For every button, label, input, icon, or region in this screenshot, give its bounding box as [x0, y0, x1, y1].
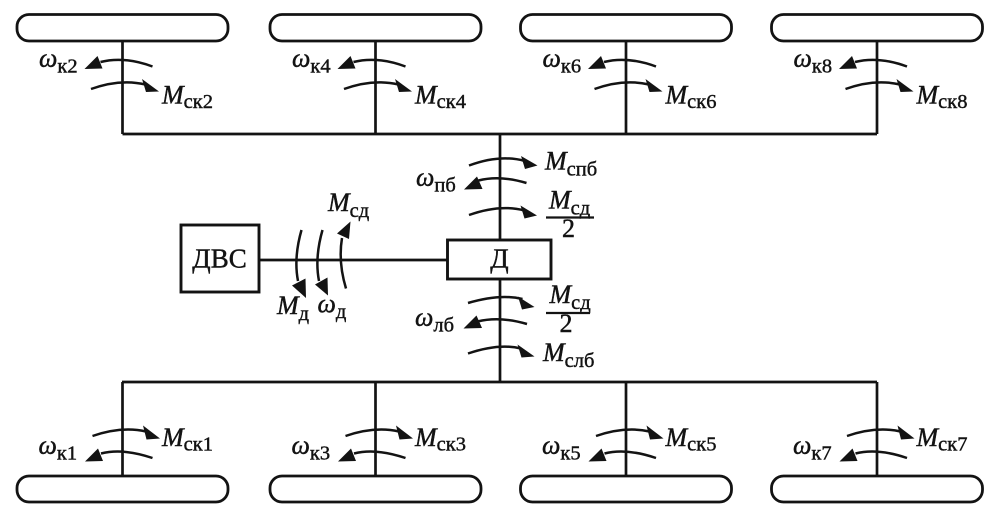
- wire: shaft from differential up to upper board: [499, 134, 502, 241]
- arrow: wheel speed ω_к8 (curved, points left): [855, 60, 907, 67]
- wire: half-shaft to wheel K5: [625, 382, 628, 477]
- arrow: speed ω_пб (points left): [479, 178, 527, 183]
- arrow: wheel speed ω_к5 (curved, points left): [605, 452, 657, 458]
- wheel K5 (tyre, bottom row): [521, 476, 732, 502]
- svg-text:2: 2: [560, 309, 573, 338]
- arrow: torque M_сд/2 upper (points right): [469, 208, 525, 215]
- arrow: friction torque M_ск1 (curved, points right): [93, 430, 147, 436]
- arrow: friction torque M_ск4 (curved, points right): [344, 82, 399, 89]
- block Д (differential): [448, 240, 552, 279]
- wire: shaft from differential down to lower board: [499, 279, 502, 382]
- arrow: friction torque M_ск7 (curved, points right): [847, 430, 901, 436]
- wire: half-shaft to wheel K4: [374, 40, 377, 134]
- arrow: torque M_спб (points right): [469, 158, 525, 165]
- arrow: friction torque M_ск8 (curved, points right): [846, 82, 901, 89]
- arrow: speed ω_лб (points left): [478, 319, 528, 324]
- arrow: friction torque M_ск5 (curved, points right): [596, 430, 650, 436]
- wheel K8 (tyre, top row): [772, 15, 983, 42]
- wheel K1 (tyre, bottom row): [17, 476, 228, 502]
- arrow: wheel speed ω_к2 (curved, points left): [101, 60, 153, 67]
- wheel K2 (tyre, top row): [17, 15, 228, 42]
- svg-text:Д: Д: [490, 244, 508, 274]
- wire: half-shaft to wheel K2: [121, 40, 124, 134]
- wire: upper board shaft (front axle line): [123, 133, 878, 136]
- wire: lower board shaft (rear axle line): [122, 381, 877, 384]
- svg-text:ДВС: ДВС: [192, 244, 246, 274]
- wheel K6 (tyre, top row): [521, 15, 732, 42]
- wire: half-shaft to wheel K3: [374, 382, 377, 477]
- arrow: friction torque M_ск3 (curved, points right): [346, 430, 400, 436]
- arrow: torque M_сд/2 lower (points right): [468, 297, 523, 303]
- arrow: engine speed ω_д (arc across shaft, points down-left): [317, 230, 322, 281]
- arrow: wheel speed ω_к6 (curved, points left): [604, 60, 656, 67]
- wire: half-shaft to wheel K7: [876, 382, 879, 477]
- wheel K4 (tyre, top row): [270, 15, 481, 42]
- wire: engine output shaft: [259, 259, 448, 262]
- block ДВС (internal combustion engine): [181, 225, 259, 292]
- arrow: wheel speed ω_к4 (curved, points left): [354, 60, 406, 67]
- wire: half-shaft to wheel K6: [625, 40, 628, 134]
- arrow: torque M_слб (points right): [468, 347, 521, 354]
- arrow: resistance torque M_сд (arc across shaft, points up-right): [341, 238, 346, 289]
- wire: half-shaft to wheel K8: [876, 40, 879, 134]
- arrow: friction torque M_ск2 (curved, points right): [91, 82, 146, 89]
- arrow: friction torque M_ск6 (curved, points right): [595, 82, 650, 89]
- wheel K3 (tyre, bottom row): [270, 476, 481, 502]
- arrow: wheel speed ω_к1 (curved, points left): [101, 452, 153, 458]
- wheel K7 (tyre, bottom row): [772, 476, 983, 502]
- arrow: engine torque M_д (arc across shaft, points down-left): [296, 230, 301, 281]
- arrow: wheel speed ω_к3 (curved, points left): [354, 452, 406, 458]
- svg-text:2: 2: [562, 214, 575, 243]
- wire: half-shaft to wheel K1: [121, 382, 124, 477]
- arrow: wheel speed ω_к7 (curved, points left): [856, 452, 908, 458]
